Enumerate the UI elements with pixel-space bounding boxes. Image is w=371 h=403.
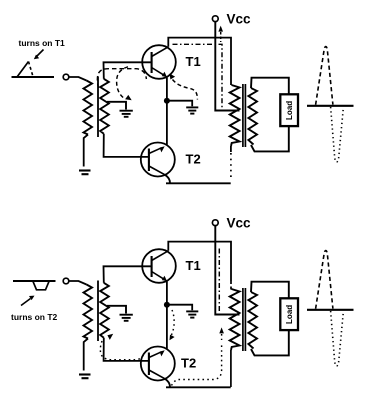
transformer TR2b primary winding [230, 289, 240, 350]
current path: T2 emitter from ground (dotted, bottom) [170, 310, 175, 340]
current path: T2 collector loop along bottom rail (dotted, bottom) [172, 327, 224, 385]
label T2 (top) [186, 152, 201, 167]
output waveform negative half (dotted) (bottom) [331, 311, 344, 366]
load resistor box (bottom) [280, 298, 298, 330]
output waveform negative half (dotted) (top) [331, 107, 344, 162]
transformer TR2a primary winding [84, 285, 93, 339]
transistor T2 (bottom circuit) [141, 347, 175, 381]
wire: output primary top lead, partly dashed (bottom) [230, 264, 232, 290]
current path: T1 emitter from ground (dashed, top) [170, 74, 198, 100]
current path: up the Vcc line (dash-dot, bottom) [218, 247, 220, 311]
wire: junction to emitter ground (top) [167, 101, 192, 107]
wire: secondary centre tap (top) [107, 102, 126, 110]
wire: secondary top to load (bottom) [251, 282, 289, 298]
svg-text:Vcc: Vcc [227, 215, 252, 230]
svg-text:turns on T1: turns on T1 [19, 38, 66, 48]
transformer TR1a secondary winding [100, 79, 109, 134]
transformer TR1a core [97, 77, 99, 138]
output waveform positive half (dashed) (top) [316, 47, 333, 105]
transformer TR2a core [97, 281, 99, 342]
wire: load bottom to secondary bottom (bottom) [251, 330, 289, 355]
ground: centre tap (bottom) [120, 315, 133, 321]
wire: junction to emitter ground (bottom) [167, 305, 192, 311]
transistor T1 (top circuit) [142, 45, 176, 79]
label T2 (bottom) [181, 356, 196, 371]
svg-text:T1: T1 [186, 54, 201, 69]
wire: secondary top to T1 base (top) [104, 62, 152, 79]
input waveform positive hump (top) [17, 62, 33, 78]
ground: input primary (top) [79, 171, 91, 175]
wire: primary bottom to ground (bottom) [84, 339, 88, 371]
wire: T1 collector to output primary top (top) [168, 38, 231, 60]
current path: input secondary bottom to T2 base (dotted, bottom) [100, 334, 144, 360]
wire: secondary bottom to T2 base (top) [104, 134, 149, 157]
label: turns on T2 [11, 312, 58, 322]
wire: T1 collector to output primary top (bottom) [168, 242, 231, 264]
wire: T2 collector to bottom rail (bottom) [165, 379, 231, 388]
svg-text:T1: T1 [186, 258, 201, 273]
wire: bottom rail to output primary bottom (bottom) [230, 350, 232, 387]
power terminal Vcc (bottom) [212, 215, 251, 230]
label T1 (bottom) [186, 258, 201, 273]
transformer TR1b secondary winding [248, 88, 257, 145]
transformer TR1b core [243, 84, 246, 147]
transformer TR2b core [243, 288, 246, 351]
transistor T2 (top circuit) [141, 143, 175, 177]
output waveform positive half (dashed) (bottom) [316, 251, 333, 309]
node: emitter junction (bottom) [164, 302, 170, 308]
label: turns on T1 [19, 38, 66, 48]
load resistor box (top) [280, 94, 298, 126]
transformer TR2b secondary winding [248, 292, 257, 349]
wire: secondary top to load (top) [251, 78, 289, 94]
svg-text:Vcc: Vcc [227, 11, 252, 26]
power terminal Vcc (top) [212, 11, 251, 26]
wire: primary bottom to ground (top) [84, 135, 88, 167]
svg-text:Load: Load [285, 305, 294, 324]
transformer TR1a primary winding [84, 81, 93, 135]
input waveform negative hump (bottom) [33, 281, 49, 289]
wire: secondary centre tap (bottom) [107, 306, 126, 314]
node: emitter junction (top) [164, 98, 170, 104]
input waveform baseline (bottom) [13, 280, 56, 282]
current path: input secondary top to T1 base (dashed, top) [97, 69, 146, 88]
wire: emitter bus T1-T2 (top) [166, 78, 168, 145]
wire: output primary top lead (top) [230, 60, 232, 85]
wire: secondary bottom to T2 base (bottom) [104, 338, 149, 361]
transformer TR2a secondary winding [100, 283, 109, 338]
current path: T1 collector loop along top rail (dash-dot, top) [173, 44, 223, 108]
wire: load bottom to secondary bottom (top) [251, 126, 289, 151]
wire: input terminal to transformer primary (top) [63, 74, 86, 80]
current path: base return arrow into centre-tap ground (top) [117, 67, 132, 100]
wire: secondary top to T1 base (bottom) [104, 266, 152, 283]
wire: T2 collector to bottom rail (top) [165, 175, 231, 184]
wire: Vcc to output primary centre tap (top) [215, 22, 239, 111]
output waveform baseline (top) [307, 105, 354, 107]
wire: input terminal to transformer primary (bottom) [63, 278, 86, 284]
wire: emitter bus T1-T2 (bottom) [166, 282, 168, 349]
svg-text:turns on T2: turns on T2 [11, 312, 58, 322]
svg-text:Load: Load [285, 101, 294, 120]
wire: Vcc to output primary centre tap (bottom) [215, 226, 239, 315]
input waveform baseline (top) [12, 76, 55, 78]
transistor T1 (bottom circuit) [142, 249, 176, 283]
current path: arrow up into Vcc (top) [218, 26, 223, 42]
ground: emitter (bottom) [186, 311, 198, 317]
svg-text:T2: T2 [186, 152, 201, 167]
annotation arrow to hump (top) [34, 50, 44, 60]
ground: emitter (top) [186, 107, 198, 113]
wire: bottom rail to output primary bottom, dotted (top) [230, 146, 232, 180]
transformer TR1b primary winding [230, 85, 240, 146]
svg-text:T2: T2 [181, 356, 196, 371]
ground: centre tap (top) [120, 111, 133, 117]
output waveform baseline (bottom) [307, 309, 354, 311]
annotation arrow to hump (bottom) [21, 296, 35, 306]
ground: input primary (bottom) [79, 375, 91, 379]
label T1 (top) [186, 54, 201, 69]
